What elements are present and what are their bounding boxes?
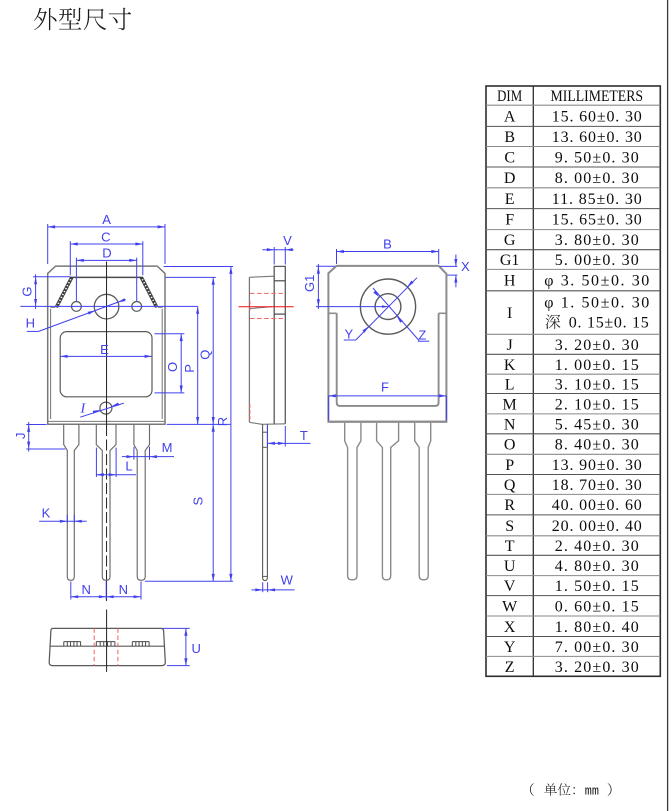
dimension table grid bbox=[486, 86, 660, 676]
dimension K line with arrows bbox=[39, 520, 86, 522]
dimension U extension lines bbox=[163, 627, 190, 629]
dimension M line with arrows bbox=[122, 456, 174, 458]
svg-text:V: V bbox=[283, 233, 292, 248]
svg-text:N: N bbox=[82, 582, 91, 597]
svg-text:V: V bbox=[504, 578, 516, 595]
svg-text:O: O bbox=[165, 362, 180, 372]
svg-text:C: C bbox=[101, 229, 110, 244]
svg-text:3. 80±0. 30: 3. 80±0. 30 bbox=[555, 232, 639, 249]
svg-text:W: W bbox=[502, 598, 518, 615]
dimension T line with arrows bbox=[268, 442, 311, 444]
dimension Y leader with label bbox=[344, 339, 356, 341]
svg-text:Q: Q bbox=[197, 350, 212, 360]
bottom view: pin cross-sections bbox=[64, 641, 81, 643]
dimension G1 label (rotated) bbox=[302, 275, 317, 292]
front view: bottom small hole (dim I) bbox=[100, 402, 112, 414]
svg-text:K: K bbox=[42, 506, 51, 521]
svg-text:G1: G1 bbox=[302, 275, 317, 292]
front view: mounting hole (big circle, dim H) bbox=[94, 294, 119, 319]
dimension O label (rotated) bbox=[165, 362, 180, 372]
front view: pin 1 (left lead) bbox=[64, 424, 79, 580]
title 外型尺寸 (Outline Dimensions) bbox=[34, 8, 57, 30]
svg-text:L: L bbox=[125, 459, 132, 474]
svg-text:18. 70±0. 30: 18. 70±0. 30 bbox=[552, 477, 642, 494]
dimension S label (rotated) bbox=[190, 497, 205, 506]
svg-text:0. 60±0. 15: 0. 60±0. 15 bbox=[555, 598, 639, 615]
svg-text:DIM: DIM bbox=[497, 88, 522, 105]
dimension B line with arrows bbox=[337, 251, 439, 253]
dimension S vertical line with arrows bbox=[212, 424, 214, 581]
svg-text:Z: Z bbox=[505, 659, 515, 676]
front view: heatsink tab top edge bbox=[70, 276, 143, 278]
svg-text:R: R bbox=[215, 417, 230, 426]
page border rule (right edge vertical line) bbox=[667, 0, 669, 811]
svg-text:MILLIMETERS: MILLIMETERS bbox=[551, 88, 644, 105]
dimension R label (rotated) bbox=[215, 417, 230, 426]
front view: left inner lip line bbox=[50, 309, 52, 419]
svg-text:15. 60±0. 30: 15. 60±0. 30 bbox=[552, 108, 642, 125]
side view: body bottom edge bbox=[249, 422, 285, 424]
dimension I leader with label bbox=[80, 403, 124, 417]
svg-text:W: W bbox=[281, 573, 294, 588]
svg-text:X: X bbox=[461, 259, 470, 274]
front view: pin 3 (right lead) bbox=[134, 424, 150, 580]
dimension N extension lines bbox=[70, 582, 72, 600]
dimension J vertical line with arrows bbox=[28, 422, 30, 452]
dimension Q label (rotated) bbox=[197, 350, 212, 360]
dimension Z leader with label bbox=[418, 340, 430, 342]
dimension J label (rotated) bbox=[13, 432, 28, 439]
bottom view: red hidden lines bbox=[93, 628, 95, 665]
dimension X vertical line with arrows bbox=[455, 255, 457, 267]
svg-text:1. 80±0. 40: 1. 80±0. 40 bbox=[555, 619, 639, 636]
svg-text:H: H bbox=[504, 273, 516, 290]
dimension P vertical line with arrows bbox=[197, 306, 199, 424]
dimension W line with arrows bbox=[251, 589, 294, 591]
svg-text:S: S bbox=[190, 497, 205, 506]
svg-text:N: N bbox=[504, 417, 516, 434]
pin tip extension line bbox=[145, 580, 233, 582]
dimension Q vertical line with arrows bbox=[212, 277, 214, 424]
bottom view: vertical centerline bbox=[106, 610, 108, 672]
svg-text:1. 00±0. 15: 1. 00±0. 15 bbox=[555, 357, 639, 374]
side view: hole centre line (red) bbox=[239, 306, 294, 308]
svg-text:7. 00±0. 30: 7. 00±0. 30 bbox=[555, 639, 639, 656]
back view: pin 3 bbox=[415, 423, 431, 580]
svg-text:U: U bbox=[192, 641, 201, 656]
svg-text:M: M bbox=[503, 396, 517, 413]
svg-text:F: F bbox=[505, 212, 514, 229]
front view: vertical centerline bbox=[106, 262, 108, 426]
side view: lead (pin) profile bbox=[263, 424, 268, 580]
svg-text:9. 50±0. 30: 9. 50±0. 30 bbox=[555, 149, 639, 166]
svg-text:8. 40±0. 30: 8. 40±0. 30 bbox=[555, 437, 639, 454]
svg-text:I: I bbox=[507, 305, 512, 322]
svg-text:3. 20±0. 30: 3. 20±0. 30 bbox=[555, 337, 639, 354]
svg-text:F: F bbox=[381, 379, 389, 394]
back view: body bottom thick edge bbox=[328, 421, 446, 423]
dimension R vertical line with arrows bbox=[230, 267, 232, 582]
svg-text:φ 1. 50±0. 30: φ 1. 50±0. 30 bbox=[544, 295, 649, 312]
svg-text:E: E bbox=[100, 342, 109, 357]
side view: internal chamfer line bbox=[250, 307, 272, 309]
svg-text:φ 3. 50±0. 30: φ 3. 50±0. 30 bbox=[544, 273, 649, 290]
hole centre extension line (horizontal through holes) bbox=[20, 305, 197, 307]
svg-text:O: O bbox=[504, 437, 516, 454]
dimension E line with arrows bbox=[60, 355, 152, 357]
svg-text:A: A bbox=[504, 108, 516, 125]
bottom view: parting line bbox=[50, 645, 165, 647]
dimension P label (rotated) bbox=[182, 364, 197, 373]
svg-text:13. 60±0. 30: 13. 60±0. 30 bbox=[552, 129, 642, 146]
svg-text:R: R bbox=[504, 497, 515, 514]
back view: mounting boss outer circle (dim Y) bbox=[360, 279, 415, 334]
svg-text:A: A bbox=[102, 212, 111, 227]
svg-text:D: D bbox=[504, 170, 516, 187]
svg-text:G: G bbox=[504, 232, 516, 249]
back view: heatsink channel outline bbox=[337, 313, 439, 406]
svg-text:D: D bbox=[102, 246, 111, 261]
back view: pin 1 bbox=[345, 423, 361, 580]
dimension N line with arrows bbox=[71, 596, 141, 598]
svg-text:S: S bbox=[505, 518, 514, 535]
svg-text:C: C bbox=[504, 149, 515, 166]
svg-text:0. 15±0. 15: 0. 15±0. 15 bbox=[569, 315, 649, 332]
svg-text:L: L bbox=[505, 377, 515, 394]
svg-text:5. 45±0. 30: 5. 45±0. 30 bbox=[555, 417, 639, 434]
dimension G vertical line with arrows bbox=[35, 274, 37, 309]
svg-text:3. 20±0. 30: 3. 20±0. 30 bbox=[555, 659, 639, 676]
dimension L line with arrows bbox=[95, 448, 97, 477]
unit note （单位：mm） bbox=[530, 783, 534, 796]
svg-text:3. 10±0. 15: 3. 10±0. 15 bbox=[555, 377, 639, 394]
svg-text:H: H bbox=[26, 316, 35, 331]
back view: channel step ticks bbox=[328, 312, 336, 314]
dimension T extension lines bbox=[267, 425, 269, 446]
svg-text:20. 00±0. 40: 20. 00±0. 40 bbox=[552, 518, 642, 535]
dimension G1 vertical line with arrows bbox=[317, 264, 319, 309]
dimension A (overall width) line with arrows bbox=[48, 226, 165, 228]
front view: package body outline bbox=[48, 266, 165, 424]
side view: body top edge bbox=[249, 276, 274, 277]
svg-text:mm: mm bbox=[585, 785, 599, 799]
svg-text:11. 85±0. 30: 11. 85±0. 30 bbox=[552, 191, 642, 208]
svg-text:13. 90±0. 30: 13. 90±0. 30 bbox=[552, 457, 642, 474]
dimension U vertical line with arrows bbox=[185, 628, 187, 665]
svg-text:15. 65±0. 30: 15. 65±0. 30 bbox=[552, 212, 642, 229]
svg-text:1. 50±0. 15: 1. 50±0. 15 bbox=[555, 578, 639, 595]
dimension V extension lines bbox=[273, 247, 275, 265]
svg-text:2. 10±0. 15: 2. 10±0. 15 bbox=[555, 396, 639, 413]
front view: pin 2 (middle lead) bbox=[96, 424, 116, 580]
svg-text:P: P bbox=[182, 364, 197, 373]
svg-text:N: N bbox=[119, 582, 128, 597]
back view: mounting hole inner circle (dim Z) bbox=[375, 294, 401, 320]
svg-text:T: T bbox=[505, 538, 515, 555]
front view: body bottom inner line bbox=[48, 420, 165, 422]
dimension W extension lines bbox=[262, 582, 264, 592]
side view: tab step lines bbox=[274, 280, 285, 282]
side view: molded body left edge bbox=[248, 277, 250, 422]
back view: package outline bbox=[328, 266, 446, 422]
body bottom extension line to S/Q bbox=[167, 423, 231, 425]
svg-text:B: B bbox=[504, 129, 515, 146]
side view: hole hidden lines (red dashed) bbox=[250, 292, 285, 294]
dimension F line with arrows bbox=[328, 395, 446, 397]
dimension X extension lines bbox=[440, 265, 457, 267]
side view: hidden edge red dashes bbox=[249, 301, 251, 311]
dimension V line with arrows bbox=[262, 249, 293, 251]
svg-text:T: T bbox=[300, 428, 308, 443]
svg-text:J: J bbox=[13, 432, 28, 439]
front view: right inner lip line bbox=[161, 309, 163, 419]
dimension O vertical line with arrows bbox=[180, 334, 182, 393]
svg-text:B: B bbox=[383, 236, 392, 251]
svg-text:Y: Y bbox=[504, 639, 516, 656]
svg-text:5. 00±0. 30: 5. 00±0. 30 bbox=[555, 252, 639, 269]
svg-text:4. 80±0. 30: 4. 80±0. 30 bbox=[555, 558, 639, 575]
svg-text:Z: Z bbox=[418, 327, 426, 342]
front view: right shoulder chamfer (double line with hatching) bbox=[143, 277, 158, 307]
svg-text:G: G bbox=[20, 287, 35, 297]
svg-text:K: K bbox=[504, 357, 516, 374]
svg-text:40. 00±0. 60: 40. 00±0. 60 bbox=[552, 497, 642, 514]
svg-text:M: M bbox=[162, 440, 173, 455]
dimension H leader with label bbox=[27, 330, 39, 332]
svg-text:J: J bbox=[507, 337, 513, 354]
dimension D line with arrows bbox=[76, 259, 136, 261]
svg-text:X: X bbox=[504, 619, 516, 636]
svg-text:Y: Y bbox=[344, 327, 353, 342]
svg-text:P: P bbox=[505, 457, 514, 474]
svg-text:E: E bbox=[505, 191, 515, 208]
svg-text:U: U bbox=[504, 558, 516, 575]
svg-text:2. 40±0. 30: 2. 40±0. 30 bbox=[555, 538, 639, 555]
back view: pin 2 bbox=[377, 423, 399, 580]
side view: heatsink tab outline bbox=[274, 266, 285, 423]
hole centre extension line to G1 bbox=[316, 306, 388, 308]
svg-text:G1: G1 bbox=[500, 252, 520, 269]
dimension C line with arrows bbox=[70, 243, 143, 245]
dimension G label (rotated) bbox=[20, 287, 35, 297]
front view: mold cavity rounded rectangle bbox=[60, 332, 152, 397]
front view: left shoulder chamfer (double line with hatching) bbox=[55, 277, 70, 307]
front view: small hole right bbox=[132, 302, 142, 312]
front view: small hole left bbox=[72, 302, 82, 312]
svg-text:8. 00±0. 30: 8. 00±0. 30 bbox=[555, 170, 639, 187]
bottom view: package outline bbox=[49, 628, 165, 665]
svg-text:Q: Q bbox=[504, 477, 516, 494]
